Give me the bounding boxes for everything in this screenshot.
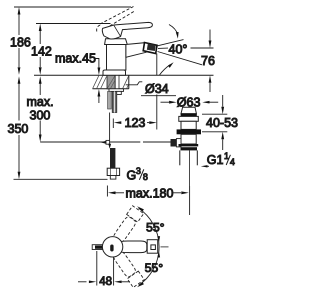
svg-text:350: 350 — [8, 122, 29, 136]
upper angle arc + arrow — [169, 25, 178, 35]
waste: side outlet collar — [176, 139, 181, 147]
plan view: handle tip block — [147, 240, 158, 254]
deck top line — [34, 74, 214, 76]
waste: lower body — [181, 134, 196, 144]
plan view: dashed handle up 55deg — [110, 206, 144, 247]
handle knob and lever — [102, 22, 152, 39]
dimension 350 — [18, 84, 20, 173]
washer below deck — [109, 89, 124, 92]
arc end arrow lower — [137, 282, 144, 287]
faucet body — [107, 45, 126, 71]
waste: washer band — [181, 147, 198, 150]
svg-text:186: 186 — [10, 36, 31, 50]
svg-text:142: 142 — [31, 45, 52, 59]
deck bottom line — [93, 88, 129, 90]
dimension max.180 — [106, 186, 108, 197]
350 reference line — [14, 178, 108, 180]
svg-text:40-53: 40-53 — [206, 116, 238, 130]
knob face edge — [114, 25, 121, 36]
dimension 48 — [96, 251, 98, 286]
left hose stub — [108, 91, 112, 109]
svg-text:76: 76 — [201, 54, 215, 68]
lower angle arc + arrow — [160, 65, 171, 75]
arc inner arrow lower — [157, 251, 160, 257]
hose nut — [107, 168, 119, 175]
dimension 40-53 — [222, 95, 224, 107]
plan view: spout stub — [92, 245, 103, 250]
plan view: center line right — [161, 246, 169, 248]
svg-text:Ø34: Ø34 — [145, 82, 169, 96]
supply hose line — [109, 113, 111, 141]
svg-text:48: 48 — [99, 276, 112, 288]
mounting nut — [116, 91, 121, 94]
waste: flange — [179, 116, 199, 121]
svg-text:max.180: max.180 — [126, 187, 174, 201]
dimension 123 — [112, 119, 114, 129]
waste: knob cap — [181, 107, 196, 113]
plan view: dashed handle down 55deg — [110, 247, 144, 288]
svg-text:max.: max. — [27, 95, 54, 109]
svg-text:123: 123 — [125, 116, 146, 130]
waste: side outlet cap — [171, 139, 177, 147]
dimension 186 — [18, 13, 20, 67]
svg-text:55°: 55° — [146, 221, 165, 235]
spout reach extension line — [156, 54, 158, 76]
waste: tube walls — [179, 150, 181, 165]
svg-text:3: 3 — [136, 166, 141, 176]
dimension max.300 — [39, 84, 41, 135]
svg-text:4: 4 — [230, 157, 235, 167]
hose drop (dark) — [110, 148, 115, 168]
threaded rod — [112, 91, 117, 112]
spout — [126, 43, 146, 58]
plan view: rotation arc — [139, 208, 160, 285]
shank through deck (hatched) — [107, 75, 115, 89]
plan view: body circle — [102, 237, 122, 257]
waste: locknut — [177, 129, 201, 134]
spray line upper L1 — [158, 40, 184, 46]
svg-text:G: G — [127, 169, 137, 183]
top reference line — [14, 6, 131, 8]
dashed raised lever — [100, 7, 136, 29]
plan view: solid handle — [115, 241, 147, 253]
max.300 reference line — [40, 141, 140, 143]
arc end arrow upper — [137, 206, 144, 211]
svg-text:max.45: max.45 — [55, 52, 96, 66]
dimension 76 — [209, 30, 211, 41]
svg-text:300: 300 — [30, 109, 51, 123]
spray mid line left — [158, 47, 168, 49]
svg-text:8: 8 — [143, 172, 148, 182]
svg-text:55°: 55° — [145, 261, 164, 275]
body dome — [105, 39, 128, 45]
waste: center line — [189, 150, 191, 186]
waste: upper body — [181, 121, 196, 129]
dashed raised knob arc — [97, 25, 102, 32]
label Ø63 with arrows — [161, 101, 170, 103]
handle rest reference line — [36, 23, 111, 25]
plan view: slot in cap — [110, 245, 113, 252]
waste: dome band — [181, 114, 197, 117]
Ø34 label cluster — [126, 82, 143, 85]
deck right edge — [128, 75, 130, 89]
faucet base — [103, 70, 126, 75]
deck hatching right — [123, 76, 129, 89]
svg-text:40°: 40° — [169, 43, 188, 57]
dimension 142 — [39, 29, 41, 67]
hose tip — [110, 176, 116, 180]
deck hatching left — [93, 75, 107, 89]
svg-text:G1: G1 — [207, 153, 224, 167]
spray line lower L3 — [158, 52, 203, 65]
aerator — [143, 43, 157, 54]
hose elbow arrow — [100, 141, 106, 144]
waste: seal bar — [179, 144, 199, 146]
arc inner arrow upper — [157, 236, 160, 242]
svg-text:Ø63: Ø63 — [177, 96, 201, 110]
spray mid line right + 76 extension — [191, 47, 214, 49]
